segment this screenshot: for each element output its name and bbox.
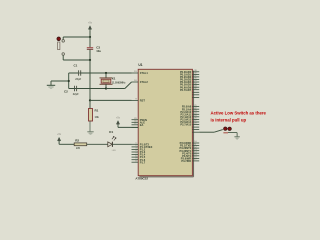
pin P0.5/AD5 (34) stub — [180, 83, 199, 87]
node - RST junction — [89, 99, 91, 101]
annotation - Active Low Switch note (red) — [211, 111, 267, 123]
pin stub (unlabeled, P2 group) — [192, 129, 199, 131]
pin P2.3/A11 (24) stub — [181, 112, 200, 116]
wire - power stem to reset node — [89, 30, 91, 37]
pin P0.2/AD2 (37) stub — [180, 75, 199, 79]
pin P0.3/AD3 (36) stub — [180, 78, 199, 82]
pin ALE (30) stub — [132, 120, 146, 124]
wire - diagonal to chip pin 18 — [125, 82, 132, 89]
pin RST (9) stub — [132, 99, 146, 103]
wire - RST to chip pin 9 — [90, 99, 132, 101]
wire - EA stem — [117, 125, 119, 127]
pin P0.0/AD0 (39) stub — [180, 70, 199, 74]
svg-text:C1: C1 — [74, 63, 78, 67]
svg-text:P2.7/A15: P2.7/A15 — [180, 123, 191, 127]
pin stub (unlabeled, P2 group) — [192, 126, 199, 128]
pin P1.0/T2 (1) stub — [132, 142, 150, 146]
svg-text:EA: EA — [140, 123, 144, 127]
svg-text:10u: 10u — [96, 49, 101, 53]
svg-text:is internal pull up: is internal pull up — [211, 117, 247, 122]
pin P0.1/AD1 (38) stub — [180, 73, 199, 77]
pin P3.3/INT1 (13) stub — [180, 149, 200, 153]
pin P0.4/AD4 (35) stub — [180, 80, 199, 84]
wire - C2 rail (left segment) — [69, 88, 106, 90]
pin stub (unlabeled, P0 group) — [192, 94, 199, 96]
svg-text:Active Low Switch as there: Active Low Switch as there — [211, 111, 267, 116]
pin P1.3 (4) stub — [132, 150, 146, 154]
svg-text:X1: X1 — [112, 77, 116, 81]
node - VCC/button/C3 top junction — [89, 36, 91, 38]
push button (active low switch) — [223, 127, 231, 133]
svg-text:RST: RST — [140, 99, 146, 103]
IC U1 AT89C52 body — [138, 69, 193, 177]
pin P1.4 (5) stub — [132, 153, 146, 157]
push button reset (vertical) — [57, 37, 65, 55]
wire - loop bottom — [63, 59, 90, 61]
pin P3.4/T0 (14) stub — [182, 151, 199, 155]
svg-text:LED: LED — [112, 150, 117, 152]
wire - left vertical joining C1 C2 — [68, 73, 70, 89]
node - C1/C2 ground tap — [68, 80, 70, 82]
wire - R2 to D1 — [87, 143, 108, 145]
pin P2.4/A12 (25) stub — [180, 115, 199, 119]
wire - loop top — [63, 36, 90, 38]
pin stub (unlabeled, P0 group) — [192, 91, 199, 93]
wire - crystal net to XTAL2 (horizontal) — [106, 88, 125, 90]
svg-text:XTAL2: XTAL2 — [140, 80, 149, 84]
wire - reset rail down to RST node — [89, 60, 91, 100]
pin P3.5/T1 (15) stub — [182, 154, 199, 158]
crystal X1 bottom lead — [105, 84, 107, 88]
pin P2.2/A10 (23) stub — [180, 110, 199, 114]
pin P2.7/A15 (28) stub — [180, 123, 199, 127]
pin P1.5 (6) stub — [132, 155, 146, 159]
svg-text:D1: D1 — [109, 130, 113, 134]
node - loop bottom junction — [89, 59, 91, 61]
svg-text:P0.7/AD7: P0.7/AD7 — [180, 88, 192, 92]
pin P3.2/INT0 (12) stub — [180, 146, 200, 150]
svg-text:R2: R2 — [75, 139, 79, 143]
pin P3.7/RD (17) stub — [181, 159, 199, 163]
crystal X1 top lead — [105, 73, 107, 78]
pin EA (31) stub — [132, 123, 144, 127]
pin EA wire stub (31) — [132, 126, 139, 128]
resistor R1 bottom lead — [89, 121, 91, 131]
pin P3.1/TXD (11) stub — [180, 144, 199, 148]
svg-text:P1.7: P1.7 — [140, 160, 146, 164]
crystal X1 — [100, 78, 113, 84]
pin P0.6/AD6 (33) stub — [180, 85, 199, 89]
pin stub (unlabeled, P0 group) — [192, 96, 199, 98]
svg-text:C2: C2 — [64, 89, 68, 93]
wire - arrow to R2 — [59, 143, 74, 145]
ground (below R1) — [87, 132, 93, 135]
svg-text:XTAL1: XTAL1 — [140, 71, 149, 75]
wire - button top drop — [62, 37, 64, 40]
pin P2.5/A13 (26) stub — [180, 118, 199, 122]
pin stub (unlabeled, P2 group) — [192, 131, 199, 133]
svg-text:U1: U1 — [138, 63, 142, 67]
wire - to ground — [51, 80, 69, 82]
wire - R2 stem — [58, 142, 60, 144]
capacitor C3 leads — [89, 37, 91, 47]
pin XTAL1 (19) stub — [132, 71, 149, 75]
svg-text:22pF: 22pF — [75, 78, 81, 81]
power +5V symbol (top) — [88, 22, 93, 31]
svg-text:22pF: 22pF — [73, 93, 79, 96]
pin P2.1/A9 (22) stub — [182, 107, 199, 111]
power +5V symbol (R2) — [57, 133, 62, 142]
wire - EA to chip pin 31 — [118, 126, 138, 128]
wire - diagonal to switch — [214, 130, 223, 133]
svg-text:P3.7/RD: P3.7/RD — [181, 159, 191, 163]
node - crystal top junction — [105, 72, 107, 74]
wire - D1 to chip pin 1 — [112, 143, 131, 145]
pin P2.6/A14 (27) stub — [180, 120, 199, 124]
svg-text:AT89C52: AT89C52 — [135, 176, 148, 180]
power +5V symbol (EA pin) — [116, 117, 121, 126]
svg-text:R1: R1 — [95, 109, 99, 113]
pin P2.0/A8 (21) stub — [182, 105, 199, 109]
pin P3.0/RXD (10) stub — [180, 141, 200, 145]
pin XTAL2 (18) stub — [132, 80, 149, 84]
pin P1.6 (7) stub — [132, 158, 146, 162]
capacitor C3 — [87, 48, 93, 50]
pin P0.7/AD7 (32) stub — [180, 88, 199, 92]
wire - XTAL1 net (C1 to chip pin 19) — [69, 72, 132, 74]
svg-text:220: 220 — [76, 147, 81, 150]
ground (switch) — [234, 137, 239, 140]
pin PSEN (29) stub — [132, 118, 147, 122]
pin P1.2 (3) stub — [132, 148, 146, 152]
ground (crystal caps) — [47, 81, 55, 89]
wire - button bottom drop — [62, 55, 64, 60]
capacitor C2 — [75, 86, 77, 91]
wire - switch to chip stub — [199, 131, 214, 133]
pin P1.1/T2EX (2) stub — [132, 145, 153, 149]
pin P1.7 (8) stub — [132, 160, 146, 164]
pin P3.6/WR (16) stub — [181, 157, 199, 161]
wire - switch to ground — [228, 132, 237, 134]
capacitor C1 — [78, 70, 81, 75]
resistor R2 — [74, 143, 87, 146]
svg-text:11.0592MHz: 11.0592MHz — [112, 82, 126, 85]
resistor R1 top lead — [89, 100, 91, 108]
resistor R1 — [89, 109, 93, 122]
LED D1 — [108, 136, 116, 147]
node - crystal bottom junction — [105, 87, 107, 89]
svg-text:10k: 10k — [95, 115, 100, 119]
